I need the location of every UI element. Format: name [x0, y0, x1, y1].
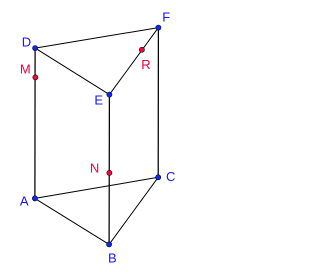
svg-text:F: F — [162, 9, 170, 24]
edge DE (top face) — [35, 48, 109, 95]
edge DF (top face) — [35, 28, 158, 48]
svg-text:E: E — [94, 93, 103, 108]
svg-text:C: C — [166, 169, 175, 184]
point N (on edge BE) — [107, 170, 112, 175]
point R (on edge EF) — [139, 47, 144, 52]
point E — [107, 92, 112, 97]
point A — [32, 196, 37, 201]
svg-text:M: M — [20, 62, 31, 77]
svg-text:A: A — [20, 194, 29, 209]
edge AD (vertical) — [34, 48, 36, 198]
edge AC (bottom face) — [35, 177, 158, 198]
svg-text:R: R — [141, 57, 150, 72]
svg-text:N: N — [90, 161, 99, 176]
point B — [107, 242, 112, 247]
edge CF (vertical) — [157, 28, 159, 178]
point C — [156, 175, 161, 180]
svg-text:D: D — [22, 34, 31, 49]
edge BC (bottom face) — [109, 177, 158, 244]
edge BE (vertical) — [108, 95, 110, 245]
point F — [156, 25, 161, 30]
point M (on edge AD) — [33, 75, 38, 80]
edge AB (bottom face) — [35, 198, 109, 244]
point D — [33, 46, 38, 51]
svg-text:B: B — [108, 251, 117, 266]
edge EF (top face) — [109, 28, 158, 95]
